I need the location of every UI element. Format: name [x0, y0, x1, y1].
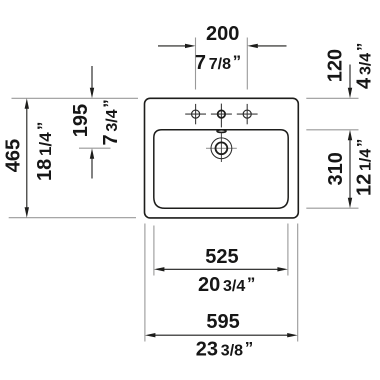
dimension 120 arrow line [349, 65, 351, 90]
arrowhead 195 up [90, 148, 94, 159]
arrowhead 310 top [348, 130, 352, 141]
svg-text:195: 195 [70, 104, 92, 137]
extension line sink bottom edge left [9, 217, 136, 219]
extension line sink left edge bottom [144, 224, 146, 342]
drain crosshair horizontal [206, 147, 237, 149]
arrowhead 595 left [145, 333, 156, 337]
arrowhead 200 right [247, 44, 257, 48]
faucet hole right [243, 110, 251, 118]
sink outer rim [145, 98, 299, 218]
faucet hole middle [218, 110, 226, 118]
svg-text:120: 120 [325, 49, 347, 82]
extension line right faucet hole (200 dim) [246, 38, 248, 90]
arrowhead 465 bottom [25, 207, 29, 218]
arrowhead 310 bottom [348, 198, 352, 209]
svg-text:525: 525 [205, 246, 238, 268]
dimension line 465 [26, 107, 28, 209]
sink basin [154, 130, 288, 208]
faucet hole middle crosshair [211, 104, 232, 128]
faucet hole right crosshair [237, 104, 258, 124]
svg-text:7 3/4 ”: 7 3/4 ” [100, 99, 122, 145]
svg-text:465: 465 [3, 139, 25, 172]
extension line basin bottom edge right [306, 207, 358, 209]
svg-text:4 3/4 ”: 4 3/4 ” [354, 43, 376, 89]
drain outer circle [211, 138, 232, 159]
svg-text:310: 310 [325, 152, 347, 185]
overflow slot [217, 130, 226, 133]
extension line left faucet hole (200 dim) [195, 38, 197, 90]
extension line drain level [79, 147, 111, 149]
arrowhead 120 down [348, 88, 352, 99]
extension line sink top edge right [306, 97, 358, 99]
dimension 195 lower arrow line [91, 158, 93, 179]
extension line basin right edge bottom [287, 224, 289, 276]
svg-text:23 3/8 ”: 23 3/8 ” [196, 339, 253, 361]
dimension line 310 [349, 138, 351, 200]
svg-text:12 1/4 ”: 12 1/4 ” [354, 139, 376, 196]
dimension line 525 [162, 268, 280, 270]
dimension line 595 [153, 334, 290, 336]
arrowhead 525 right [277, 267, 288, 271]
extension line sink top edge left [12, 97, 139, 99]
svg-text:7 7/8 ”: 7 7/8 ” [195, 52, 241, 74]
extension line basin left edge bottom [153, 226, 155, 276]
svg-text:18 1/4 ”: 18 1/4 ” [34, 122, 56, 181]
faucet hole left crosshair [185, 104, 206, 124]
arrowhead 595 right [287, 333, 298, 337]
arrowhead 465 top [25, 98, 29, 109]
extension line sink right edge bottom [297, 224, 299, 342]
drain inner circle [216, 142, 228, 154]
dimension line 200 left part [158, 45, 186, 47]
drain crosshair vertical [220, 133, 222, 162]
extension line basin top edge right [306, 129, 358, 131]
arrowhead 195 down [90, 88, 94, 99]
svg-text:595: 595 [206, 311, 239, 333]
dimension 195 upper arrow line [91, 66, 93, 89]
svg-text:200: 200 [206, 23, 239, 45]
faucet hole left [192, 110, 200, 118]
dimension line 200 right part [257, 45, 287, 47]
svg-text:20 3/4 ”: 20 3/4 ” [198, 274, 255, 296]
arrowhead 525 left [154, 267, 165, 271]
arrowhead 200 left [185, 44, 196, 48]
